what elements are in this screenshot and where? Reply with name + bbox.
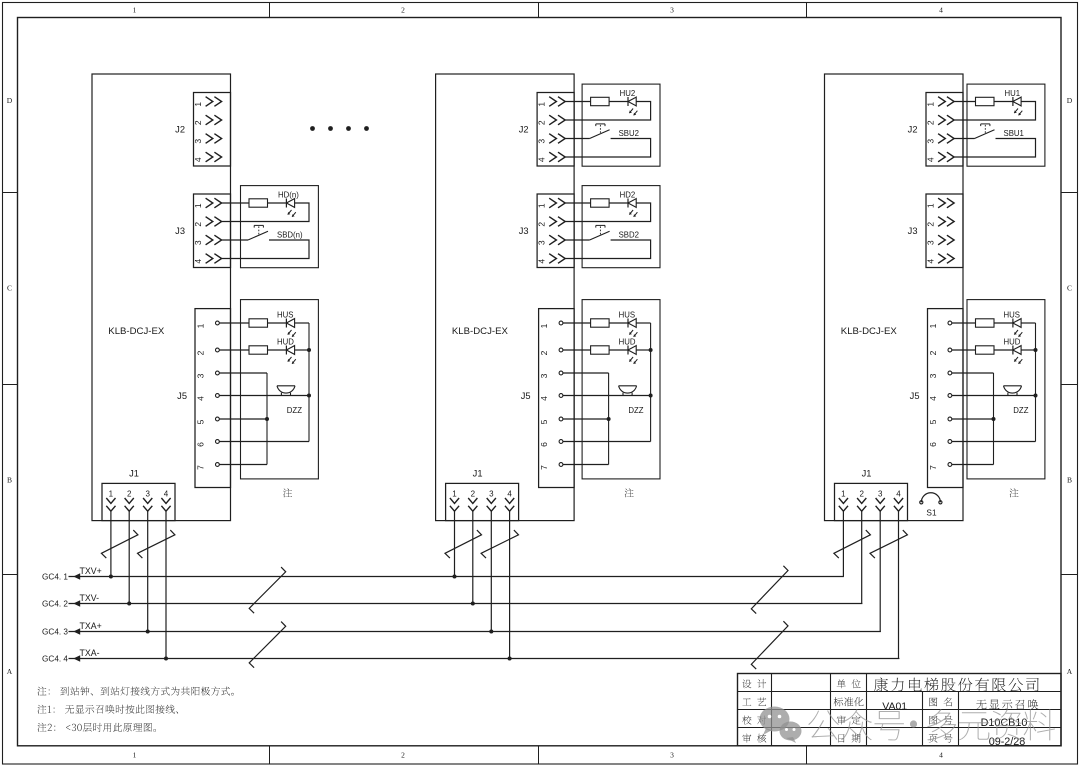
J3 pin 4 (board 1) <box>193 254 222 264</box>
twisted-pair mark J1.1/J1.2 (board 3) <box>834 530 871 558</box>
svg-text:2: 2 <box>193 120 203 125</box>
svg-text:1: 1 <box>925 203 935 208</box>
wire J2.1 to resistor (board 2) <box>565 101 590 103</box>
svg-text:1: 1 <box>193 102 203 107</box>
svg-text:GC4. 1: GC4. 1 <box>42 573 68 582</box>
svg-text:S1: S1 <box>926 507 937 517</box>
svg-text:A: A <box>7 667 13 676</box>
svg-text:D: D <box>1067 96 1073 105</box>
LED common cathode bus (board 2) <box>650 323 652 442</box>
wire J5.6 to common bus (board 2) <box>563 441 651 443</box>
svg-text:4: 4 <box>193 157 203 162</box>
J3 pin 1 (board 1) <box>193 198 222 208</box>
wire LED HU1 cathode loop to J2.2 (board 3) <box>954 102 1035 121</box>
call sub-circuit box (HD2/SBD2, board 2) <box>582 186 660 268</box>
indicator sub-circuit box (HUS/HUD/DZZ, board 1) <box>241 300 319 479</box>
svg-text:2: 2 <box>925 120 935 125</box>
svg-text:DZZ: DZZ <box>1013 406 1028 415</box>
pushbutton switch SBU1 (board 3) <box>975 124 1024 139</box>
J1 pin 4 (board 2) <box>505 489 514 511</box>
twisted-pair mark J1.3/J1.4 (board 2) <box>481 530 518 558</box>
resistor (HD2 series, board 2) <box>591 199 610 207</box>
wire J3.3 to switch (board 2) <box>565 239 589 241</box>
J5 pin 7 (board 2) <box>539 463 563 470</box>
J3 pin 4 (board 2) <box>537 254 566 264</box>
LED HUD (board 3) <box>1004 338 1023 364</box>
svg-text:SBD2: SBD2 <box>619 231 639 240</box>
svg-text:TXV+: TXV+ <box>80 566 102 576</box>
J5 pin 5 (board 3) <box>928 417 952 424</box>
svg-text:2: 2 <box>471 489 476 498</box>
J5 pin 4 (board 1) <box>195 394 219 401</box>
svg-text:HU2: HU2 <box>620 89 636 98</box>
wire LED HUD cathode to common bus (board 3) <box>1021 349 1035 351</box>
LED HU2 (board 2) <box>620 89 638 115</box>
J2 pin 3 (board 2) <box>537 134 566 144</box>
J3 pin 1 (board 3) <box>925 198 954 208</box>
svg-text:C: C <box>1067 284 1072 293</box>
return bus J5.3/5/7 (board 2) <box>608 373 610 465</box>
wire resistor to LED HUD (board 1) <box>268 349 287 351</box>
svg-text:5: 5 <box>928 419 938 424</box>
svg-text:J5: J5 <box>521 391 531 401</box>
buzzer DZZ (board 2) <box>619 386 644 415</box>
wire J1.2 to bus TXV- (board 3) <box>861 511 863 603</box>
svg-text:3: 3 <box>537 139 547 144</box>
J5 pin 5 (board 2) <box>539 417 563 424</box>
wire LED HD(n) cathode loop to J3.2 (board 1) <box>222 203 309 222</box>
svg-text:J2: J2 <box>175 124 185 134</box>
svg-text:1: 1 <box>925 102 935 107</box>
wire switch to J2.4 (board 3) <box>954 139 1035 158</box>
svg-text:4: 4 <box>193 259 203 264</box>
J1 pin 2 (board 2) <box>468 489 477 511</box>
junction J1.4/TXA- (board 1) <box>164 657 168 661</box>
call sub-circuit box (HD(n)/SBD(n), board 1) <box>241 186 319 268</box>
call sub-circuit box (HU2/SBU2, board 2) <box>582 84 660 166</box>
wire LED HD2 cathode loop to J3.2 (board 2) <box>565 203 650 222</box>
J1 pin 3 (board 3) <box>876 489 885 511</box>
svg-text:3: 3 <box>195 373 205 378</box>
wire J1.4 to bus TXA- (board 2) <box>509 511 511 658</box>
wire J5.4 through buzzer (board 2) <box>563 395 651 397</box>
svg-text:HUD: HUD <box>1004 338 1021 347</box>
LED common cathode bus (board 1) <box>308 323 310 442</box>
svg-text:2: 2 <box>539 350 549 355</box>
svg-text:1: 1 <box>133 751 137 760</box>
svg-text:HUS: HUS <box>1004 311 1020 320</box>
connector J3 (board 2) <box>519 194 574 268</box>
wire J5.6 to common bus (board 1) <box>219 441 309 443</box>
svg-text:HU1: HU1 <box>1005 89 1021 98</box>
wire resistor to LED HUS (board 2) <box>609 322 628 324</box>
svg-text:GC4. 4: GC4. 4 <box>42 655 68 664</box>
note marker (board 2) <box>625 488 634 497</box>
module KLB-DCJ-EX (board 1) <box>92 74 231 521</box>
wire LED HUD cathode to common bus (board 1) <box>295 349 309 351</box>
svg-text:B: B <box>1067 476 1072 485</box>
J3 pin 3 (board 2) <box>537 235 566 245</box>
svg-text:6: 6 <box>928 442 938 447</box>
svg-text:HUS: HUS <box>619 311 635 320</box>
svg-text:1: 1 <box>928 323 938 328</box>
J5 pin 4 (board 2) <box>539 394 563 401</box>
svg-text:7: 7 <box>195 465 205 470</box>
J5 pin 7 (board 1) <box>195 463 219 470</box>
svg-text:SBU1: SBU1 <box>1004 129 1024 138</box>
connector J3 (board 1) <box>175 194 230 268</box>
connector J5 (board 2) <box>521 309 574 488</box>
svg-text:J5: J5 <box>910 391 920 401</box>
LED HUS (board 1) <box>277 311 296 337</box>
svg-text:1: 1 <box>537 102 547 107</box>
svg-text:3: 3 <box>489 489 494 498</box>
svg-text:TXA-: TXA- <box>80 648 100 658</box>
J5 pin 3 (board 1) <box>195 371 219 378</box>
wire J3.3 to switch (board 1) <box>222 239 248 241</box>
svg-text:1: 1 <box>537 203 547 208</box>
wire resistor to LED HD(n) (board 1) <box>268 202 287 204</box>
svg-text:SBU2: SBU2 <box>619 129 639 138</box>
junction HUD/common (board 3) <box>1034 348 1038 352</box>
LED common cathode bus (board 3) <box>1035 323 1037 442</box>
J2 pin 2 (board 3) <box>925 115 954 125</box>
junction DZZ/common (board 3) <box>1034 394 1038 398</box>
J5 pin 6 (board 2) <box>539 440 563 447</box>
connector J2 (board 1) <box>175 93 230 167</box>
wire switch to J3.4 (board 2) <box>565 240 650 259</box>
wire J1.4 to bus TXA- (board 1) <box>165 511 167 658</box>
svg-text:3: 3 <box>928 373 938 378</box>
svg-text:5: 5 <box>539 419 549 424</box>
LED HD(n) (board 1) <box>278 191 299 217</box>
LED HU1 (board 3) <box>1005 89 1023 115</box>
connector J2 (board 3) <box>908 93 963 167</box>
svg-text:B: B <box>7 476 12 485</box>
wire J3.1 to resistor (board 2) <box>565 202 590 204</box>
svg-text:4: 4 <box>928 396 938 401</box>
svg-text:7: 7 <box>928 465 938 470</box>
pushbutton switch SBD(n) (board 1) <box>248 225 303 240</box>
J1 pin 3 (board 1) <box>143 489 152 511</box>
wire J5.5 to return bus (board 3) <box>952 418 994 420</box>
junction J1.2/TXV- (board 1) <box>127 602 131 606</box>
LED HUD (board 1) <box>277 338 296 364</box>
svg-text:KLB-DCJ-EX: KLB-DCJ-EX <box>452 326 509 337</box>
J2 pin 4 (board 2) <box>537 152 566 162</box>
wire J5 to resistor (HUS, board 3) <box>952 322 976 324</box>
svg-text:2: 2 <box>401 751 405 760</box>
J1 pin 3 (board 2) <box>487 489 496 511</box>
resistor (HD(n) series, board 1) <box>249 199 268 207</box>
twisted-pair mark J1.1/J1.2 (board 2) <box>445 530 482 558</box>
svg-text:4: 4 <box>537 157 547 162</box>
svg-text:3: 3 <box>537 240 547 245</box>
wire J1.3 to bus TXA+ (board 2) <box>490 511 492 631</box>
svg-text:4: 4 <box>939 751 943 760</box>
svg-text:2: 2 <box>401 6 405 15</box>
J5 pin 3 (board 2) <box>539 371 563 378</box>
twisted-pair mark TXV bus (boards 2-3) <box>751 566 788 614</box>
svg-text:HUS: HUS <box>277 311 293 320</box>
wire J5.4 through buzzer (board 3) <box>952 395 1036 397</box>
wire J1.4 to bus TXA- (board 3) <box>898 511 900 658</box>
svg-text:3: 3 <box>925 139 935 144</box>
svg-text:7: 7 <box>539 465 549 470</box>
wire resistor to LED HUD (board 2) <box>609 349 628 351</box>
svg-text:HD(n): HD(n) <box>278 191 299 200</box>
wire resistor to LED HU2 (board 2) <box>609 101 628 103</box>
svg-text:4: 4 <box>925 157 935 162</box>
wire J5.7 to return bus (board 1) <box>219 464 267 466</box>
svg-text:J3: J3 <box>908 226 918 236</box>
twisted-pair mark J1.1/J1.2 (board 1) <box>101 530 137 558</box>
svg-text:3: 3 <box>878 489 883 498</box>
svg-text:J2: J2 <box>519 124 529 134</box>
svg-text:J1: J1 <box>473 469 483 479</box>
svg-text:3: 3 <box>539 373 549 378</box>
svg-text:2: 2 <box>537 120 547 125</box>
svg-text:HUD: HUD <box>277 338 294 347</box>
wire resistor to LED HUS (board 1) <box>268 322 287 324</box>
connector J5 (board 3) <box>910 309 963 488</box>
svg-text:DZZ: DZZ <box>287 406 302 415</box>
svg-text:TXA+: TXA+ <box>80 621 102 631</box>
svg-text:2: 2 <box>925 222 935 227</box>
svg-text:5: 5 <box>195 419 205 424</box>
J2 pin 2 (board 1) <box>193 115 222 125</box>
svg-text:4: 4 <box>925 259 935 264</box>
wire J1.3 to bus TXA+ (board 1) <box>147 511 149 631</box>
J3 pin 3 (board 1) <box>193 235 222 245</box>
twisted-pair mark TXV bus (boards 1-2) <box>249 567 286 613</box>
svg-text:3: 3 <box>145 489 150 498</box>
J3 pin 1 (board 2) <box>537 198 566 208</box>
J5 pin 1 (board 3) <box>928 321 952 328</box>
wire J1.1 to bus TXV+ (board 2) <box>454 511 456 576</box>
call sub-circuit box (HU1/SBU1, board 3) <box>967 84 1045 166</box>
svg-text:4: 4 <box>896 489 901 498</box>
svg-text:GC4. 2: GC4. 2 <box>42 600 68 609</box>
J1 pin 4 (board 3) <box>894 489 903 511</box>
wire J5 to resistor (HUD, board 2) <box>563 349 591 351</box>
connector J2 (board 2) <box>519 93 574 167</box>
wire J1.2 to bus TXV- (board 2) <box>472 511 474 603</box>
svg-text:4: 4 <box>507 489 512 498</box>
wire J5 to resistor (HUS, board 2) <box>563 322 591 324</box>
module KLB-DCJ-EX (board 2) <box>436 74 574 521</box>
LED HD2 (board 2) <box>620 191 638 217</box>
wire J5 to resistor (HUS, board 1) <box>219 322 249 324</box>
svg-text:3: 3 <box>925 240 935 245</box>
J1 pin 2 (board 3) <box>857 489 866 511</box>
J1 pin 4 (board 1) <box>161 489 170 511</box>
svg-text:4: 4 <box>539 396 549 401</box>
connector J1 (board 2) <box>446 469 519 521</box>
wire switch to J3.4 (board 1) <box>222 240 309 259</box>
svg-text:J3: J3 <box>519 226 529 236</box>
wire J5 to resistor (HUD, board 3) <box>952 349 976 351</box>
J2 pin 2 (board 2) <box>537 115 566 125</box>
svg-text:1: 1 <box>539 323 549 328</box>
twisted-pair mark TXA bus (boards 1-2) <box>249 622 286 668</box>
twisted-pair mark J1.3/J1.4 (board 3) <box>870 530 907 558</box>
net TXA- bus wire (GC4. 4) <box>42 648 899 664</box>
resistor (HUS series, board 1) <box>249 319 268 327</box>
J2 pin 1 (board 1) <box>193 97 222 107</box>
svg-text:1: 1 <box>133 6 137 15</box>
indicator sub-circuit box (HUS/HUD/DZZ, board 2) <box>582 300 660 479</box>
J1 pin 1 (board 1) <box>106 489 115 511</box>
svg-text:2: 2 <box>195 350 205 355</box>
wire LED HU2 cathode loop to J2.2 (board 2) <box>565 102 650 121</box>
wire J1.3 to bus TXA+ (board 3) <box>879 511 881 631</box>
wire J2.3 to switch (board 3) <box>954 138 974 140</box>
wire J1.2 to bus TXV- (board 1) <box>128 511 130 603</box>
resistor (HU1 series, board 3) <box>976 97 995 105</box>
svg-text:A: A <box>1067 667 1073 676</box>
wire J2.3 to switch (board 2) <box>565 138 589 140</box>
wire resistor to LED HUD (board 3) <box>994 349 1013 351</box>
wire J5.4 through buzzer (board 1) <box>219 395 309 397</box>
return bus J5.3/5/7 (board 3) <box>993 373 995 465</box>
wire J5.6 to common bus (board 3) <box>952 441 1036 443</box>
svg-text:2: 2 <box>193 222 203 227</box>
svg-text:KLB-DCJ-EX: KLB-DCJ-EX <box>108 326 165 337</box>
svg-text:1: 1 <box>452 489 457 498</box>
svg-text:2: 2 <box>859 489 864 498</box>
svg-text:C: C <box>7 284 12 293</box>
J2 pin 4 (board 3) <box>925 152 954 162</box>
junction DZZ/common (board 2) <box>649 394 653 398</box>
J5 pin 1 (board 1) <box>195 321 219 328</box>
svg-text:1: 1 <box>195 323 205 328</box>
J2 pin 1 (board 3) <box>925 97 954 107</box>
J2 pin 4 (board 1) <box>193 152 222 162</box>
svg-text:HUD: HUD <box>619 338 636 347</box>
note marker (board 3) <box>1010 488 1019 497</box>
junction HUD/common (board 2) <box>649 348 653 352</box>
wire LED HUS cathode to common bus (board 1) <box>295 322 309 324</box>
J3 pin 2 (board 3) <box>925 217 954 227</box>
wire J5.5 to return bus (board 2) <box>563 418 609 420</box>
svg-text:3: 3 <box>670 6 674 15</box>
junction J5.5/return (board 3) <box>992 417 996 421</box>
svg-text:1: 1 <box>109 489 114 498</box>
wire resistor to LED HD2 (board 2) <box>609 202 628 204</box>
svg-text:VA01: VA01 <box>882 700 907 712</box>
J5 pin 7 (board 3) <box>928 463 952 470</box>
wire J5.7 to return bus (board 2) <box>563 464 609 466</box>
junction HUD/common (board 1) <box>307 348 311 352</box>
switch S1 (board 3) <box>920 493 942 518</box>
svg-text:3: 3 <box>193 240 203 245</box>
connector J1 (board 1) <box>102 469 175 521</box>
connector J3 (board 3) <box>908 194 963 268</box>
J2 pin 3 (board 3) <box>925 134 954 144</box>
J5 pin 5 (board 1) <box>195 417 219 424</box>
svg-text:2: 2 <box>127 489 132 498</box>
svg-text:KLB-DCJ-EX: KLB-DCJ-EX <box>841 326 898 337</box>
resistor (HUD series, board 3) <box>976 346 995 354</box>
wire J1.1 to bus TXV+ (board 1) <box>110 511 112 576</box>
J5 pin 6 (board 1) <box>195 440 219 447</box>
wire resistor to LED HUS (board 3) <box>994 322 1013 324</box>
wire J5.3 to return bus (board 1) <box>219 372 267 374</box>
svg-text:3: 3 <box>670 751 674 760</box>
svg-text:TXV-: TXV- <box>80 593 100 603</box>
svg-text:D: D <box>7 96 13 105</box>
wire J5.7 to return bus (board 3) <box>952 464 994 466</box>
pushbutton switch SBU2 (board 2) <box>590 124 639 139</box>
wire J5.3 to return bus (board 3) <box>952 372 994 374</box>
buzzer DZZ (board 1) <box>277 386 302 415</box>
net TXA+ bus wire (GC4. 3) <box>42 621 881 637</box>
svg-text:J3: J3 <box>175 226 185 236</box>
J5 pin 2 (board 1) <box>195 348 219 355</box>
module KLB-DCJ-EX (board 3) <box>825 74 964 521</box>
junction J1.1/TXV+ (board 2) <box>453 575 457 579</box>
indicator sub-circuit box (HUS/HUD/DZZ, board 3) <box>967 300 1045 479</box>
resistor (HUS series, board 2) <box>591 319 610 327</box>
wire LED HUS cathode to common bus (board 2) <box>636 322 650 324</box>
J3 pin 3 (board 3) <box>925 235 954 245</box>
LED HUS (board 2) <box>619 311 638 337</box>
svg-text:1: 1 <box>841 489 846 498</box>
J5 pin 3 (board 3) <box>928 371 952 378</box>
svg-text:HD2: HD2 <box>620 191 636 200</box>
svg-text:4: 4 <box>195 396 205 401</box>
junction J5.5/return (board 2) <box>607 417 611 421</box>
svg-text:J5: J5 <box>177 391 187 401</box>
junction J1.3/TXA+ (board 2) <box>489 630 493 634</box>
wire LED HUD cathode to common bus (board 2) <box>636 349 650 351</box>
J3 pin 2 (board 2) <box>537 217 566 227</box>
buzzer DZZ (board 3) <box>1004 386 1029 415</box>
svg-text:2: 2 <box>928 350 938 355</box>
pushbutton switch SBD2 (board 2) <box>590 225 639 240</box>
svg-text:09-2/28: 09-2/28 <box>989 736 1026 748</box>
resistor (HUD series, board 2) <box>591 346 610 354</box>
continuation dots (repeated middle floors) <box>310 126 369 131</box>
wire resistor to LED HU1 (board 3) <box>994 101 1013 103</box>
return bus J5.3/5/7 (board 1) <box>266 373 268 465</box>
wire J2.1 to resistor (board 3) <box>954 101 975 103</box>
svg-text:2: 2 <box>537 222 547 227</box>
svg-text:6: 6 <box>195 442 205 447</box>
twisted-pair mark J1.3/J1.4 (board 1) <box>138 530 175 558</box>
J2 pin 1 (board 2) <box>537 97 566 107</box>
wire J5.3 to return bus (board 2) <box>563 372 609 374</box>
J1 pin 2 (board 1) <box>125 489 134 511</box>
svg-text:4: 4 <box>537 259 547 264</box>
junction J5.5/return (board 1) <box>265 417 269 421</box>
J5 pin 1 (board 2) <box>539 321 563 328</box>
junction J1.1/TXV+ (board 1) <box>109 575 113 579</box>
svg-text:1: 1 <box>193 203 203 208</box>
junction DZZ/common (board 1) <box>307 394 311 398</box>
LED HUD (board 2) <box>619 338 638 364</box>
wire J5.5 to return bus (board 1) <box>219 418 267 420</box>
svg-text:4: 4 <box>164 489 169 498</box>
svg-text:J2: J2 <box>908 124 918 134</box>
junction J1.3/TXA+ (board 1) <box>146 630 150 634</box>
svg-text:6: 6 <box>539 442 549 447</box>
junction J1.4/TXA- (board 2) <box>508 657 512 661</box>
resistor (HUS series, board 3) <box>976 319 995 327</box>
svg-text:4: 4 <box>939 6 943 15</box>
connector J1 (board 3) <box>835 469 908 521</box>
